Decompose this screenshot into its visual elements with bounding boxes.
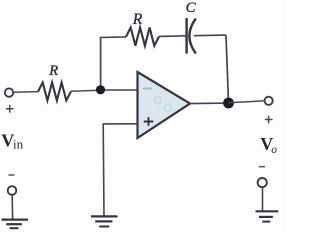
svg-text:o: o — [271, 144, 277, 156]
label Vo — [260, 134, 277, 156]
right ground — [256, 211, 279, 221]
resistor R2 (feedback) — [126, 28, 159, 46]
minus sign above output ground terminal — [259, 166, 265, 168]
wire R1 to node A — [71, 90, 100, 91]
op-amp U1 — [138, 72, 191, 138]
wire node A up to feedback branch — [100, 37, 102, 90]
svg-text:C: C — [186, 0, 197, 16]
wire source terminal to left ground — [11, 195, 13, 218]
label Vin — [1, 131, 23, 152]
output node (junction dot) — [223, 98, 234, 109]
input terminal (left) — [5, 88, 13, 96]
source ground terminal circle — [8, 186, 17, 195]
wire node A to op-amp inverting input — [101, 89, 138, 91]
svg-text:R: R — [132, 11, 143, 28]
svg-text:R: R — [48, 63, 58, 79]
plus sign at input terminal — [6, 105, 14, 113]
label C — [186, 0, 197, 16]
label R (input resistor) — [48, 63, 58, 79]
capacitor C curved plate — [189, 19, 195, 54]
svg-text:in: in — [13, 137, 24, 152]
capacitor C left plate — [185, 18, 187, 54]
middle ground (op-amp non-inverting input) — [91, 216, 118, 226]
minus sign above source ground terminal — [8, 174, 14, 176]
output terminal (right) — [265, 97, 273, 105]
wire input terminal to R1 — [14, 91, 39, 94]
plus sign at output terminal — [265, 116, 273, 124]
wire feedback top-left to R2 — [100, 36, 126, 39]
node A (junction dot) — [96, 85, 105, 94]
resistor R1 — [38, 83, 71, 101]
wire feedback right corner down to output node — [226, 35, 228, 100]
op-amp non-inverting input label + — [144, 117, 154, 126]
op-amp inverting input label - — [143, 88, 152, 90]
wire op-amp output to output node — [190, 102, 229, 105]
label R (feedback resistor) — [132, 11, 143, 28]
wire R2 to capacitor C — [159, 35, 187, 38]
wire output node to output terminal — [229, 101, 264, 103]
wire output terminal to right ground — [262, 188, 264, 211]
wire capacitor to feedback top-right corner — [194, 34, 226, 37]
wire op-amp non-inverting input to ground — [103, 124, 138, 216]
left ground — [2, 220, 29, 229]
output ground terminal circle — [258, 178, 267, 187]
